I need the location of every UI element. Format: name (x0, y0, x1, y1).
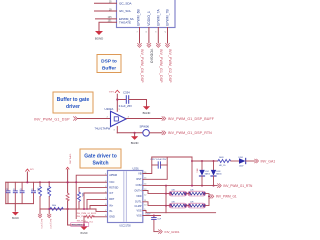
svg-text:VCC: VCC (109, 181, 114, 184)
svg-text:C219: C219 (145, 213, 151, 215)
junction resnet row2 (165, 205, 167, 207)
svg-text:INV_GND1: INV_GND1 (72, 225, 83, 227)
junction ICT (83, 208, 85, 210)
label box DSP to Buffer (97, 55, 121, 73)
svg-text:BGND: BGND (143, 111, 151, 115)
svg-text:Gate driver to: Gate driver to (84, 153, 117, 159)
junction APWM bus (75, 181, 77, 183)
offpage connector EPWM_7B (166, 43, 170, 47)
offpage connector HI (255, 159, 259, 163)
wire HI net row (192, 160, 218, 162)
svg-text:OUTL: OUTL (135, 201, 142, 204)
capacitor C3 (20, 182, 24, 203)
junction RDT (86, 208, 88, 210)
wire rtn (149, 132, 161, 134)
gate driver U201 body (108, 171, 143, 223)
svg-text:C2: C2 (31, 189, 33, 191)
wire GND drop (83, 217, 85, 227)
right pin numbers (144, 172, 146, 211)
svg-text:GND: GND (109, 216, 115, 219)
svg-text:driver: driver (66, 104, 80, 110)
wire to diode (231, 160, 240, 162)
junction GND bottom (83, 224, 85, 226)
wire left resnet vertical (165, 186, 167, 213)
diode D203 column (211, 160, 222, 186)
ground BGND top-left (95, 31, 103, 35)
wire to offpage HI (246, 160, 255, 162)
svg-text:560R: 560R (219, 157, 224, 159)
svg-text:C2: C2 (20, 189, 22, 191)
svg-text:INV_PWM_G1_RTN: INV_PWM_G1_RTN (77, 216, 96, 218)
svg-text:THGATE: THGATE (119, 21, 131, 25)
svg-text:BGND: BGND (95, 36, 103, 40)
wire EPWM_6A (96, 18, 117, 20)
svg-text:VSS: VSS (136, 209, 141, 212)
capacitor C1 (6, 182, 10, 203)
wire RDT staircase (87, 199, 108, 209)
resistor R8 row1b (188, 190, 206, 196)
resistor R7 row1a (169, 190, 187, 196)
resistor R5 on GND row (84, 215, 108, 218)
svg-text:INV_PWM_G1_RTN: INV_PWM_G1_RTN (223, 184, 253, 188)
resistor R4 vertical (78, 188, 83, 209)
svg-text:RDT: RDT (109, 198, 115, 201)
offpage connector GND1 (159, 230, 163, 234)
svg-text:RST: RST (137, 178, 142, 181)
offpage connector R1 (38, 214, 41, 217)
wire bank bottom (6, 203, 34, 205)
wire bank left edge (5, 182, 7, 203)
svg-text:INV_FLT2: INV_FLT2 (49, 219, 51, 230)
junction bank power (26, 181, 28, 183)
wire output (126, 118, 162, 120)
wire row2 link (187, 205, 189, 207)
svg-text:OUTH: OUTH (134, 189, 141, 192)
svg-text:100k: 100k (37, 188, 39, 192)
resistor R3 horizontal (50, 205, 63, 210)
junction rail bottom (191, 185, 193, 187)
capacitor C4 (31, 182, 35, 203)
offpage connector R2 (48, 214, 51, 217)
junction resnet top (165, 185, 167, 187)
svg-text:14: 14 (144, 183, 146, 185)
svg-text:V3P3_INV: V3P3_INV (69, 154, 71, 165)
svg-text:VDDIO_1: VDDIO_1 (147, 11, 151, 26)
wire gnd row (117, 132, 142, 134)
svg-text:RST/SD: RST/SD (109, 186, 118, 189)
wire row2 stub (166, 205, 170, 207)
junction VCC node (116, 98, 118, 100)
ground BGND driver (80, 227, 87, 231)
svg-text:10: 10 (144, 204, 146, 206)
svg-text:I2C_SCL: I2C_SCL (119, 9, 132, 13)
svg-text:100k: 100k (81, 193, 83, 197)
svg-text:3: 3 (105, 186, 106, 188)
svg-text:EPWM_7B: EPWM_7B (166, 9, 170, 26)
svg-text:BAS16: BAS16 (205, 173, 210, 176)
power arrow V3P3 (115, 90, 119, 92)
wire EPWM_6B down (139, 28, 141, 44)
svg-text:4: 4 (105, 191, 106, 193)
svg-text:APWM: APWM (109, 174, 117, 177)
wire APWM staircase (76, 175, 107, 218)
buffer U202A triangle (111, 111, 127, 126)
wire VSS2 row (143, 215, 161, 217)
ground BGND buffer (131, 136, 138, 140)
junction mid row (67, 208, 69, 210)
junction D203 bottom (213, 185, 215, 187)
svg-text:INV_PWM_G1_BUFF: INV_PWM_G1_BUFF (77, 213, 97, 215)
right pin names (134, 172, 142, 217)
svg-text:VDD: VDD (136, 195, 141, 198)
offpage connector G1 (210, 195, 214, 199)
svg-text:7: 7 (105, 210, 106, 212)
resistor R10 row2b (188, 202, 206, 208)
svg-text:INV_PWM_G2_DSP: INV_PWM_G2_DSP (168, 49, 172, 83)
ground BGND bank (12, 212, 19, 216)
wire RST right (143, 157, 167, 179)
svg-text:8: 8 (105, 215, 106, 217)
svg-text:INV_PWM_G1: INV_PWM_G1 (216, 195, 237, 199)
svg-text:SPW06: SPW06 (140, 125, 150, 129)
svg-text:C2: C2 (6, 189, 8, 191)
testpoint SPW06 (143, 130, 150, 137)
svg-text:6: 6 (105, 204, 106, 206)
wire bank to ground (14, 204, 16, 212)
hysteresis symbol (114, 117, 118, 121)
svg-text:U202A: U202A (105, 107, 114, 111)
resistor R2 column (46, 181, 51, 214)
svg-text:INV_PWM_G1_DSP: INV_PWM_G1_DSP (159, 49, 163, 83)
wire row1 stub (166, 193, 170, 195)
wire INM staircase (96, 209, 108, 211)
power arrow bank (26, 169, 35, 182)
svg-text:BAS16: BAS16 (216, 173, 221, 176)
wire row1 link (187, 193, 189, 195)
svg-text:EPWM_6B: EPWM_6B (137, 9, 141, 26)
svg-text:74LV1TAPW: 74LV1TAPW (95, 127, 111, 131)
wire INP staircase (90, 206, 108, 210)
offpage connector EPWM_7A (156, 43, 160, 47)
dsp U1 body (117, 0, 176, 28)
wire to C334 (117, 99, 126, 101)
offpage connector input (74, 117, 78, 121)
label box Gate driver to Switch (80, 149, 121, 168)
wire V3P3 bus (6, 181, 108, 183)
svg-text:BGND: BGND (81, 232, 88, 235)
svg-text:D201: D201 (239, 157, 244, 159)
wire OUTL to resistors (143, 202, 169, 206)
svg-text:INV1: INV1 (195, 169, 197, 173)
power V3P3_INV column (66, 154, 71, 225)
wire VCC up (116, 94, 118, 111)
offpage connector output (162, 117, 166, 121)
svg-text:0.1uF_25V: 0.1uF_25V (119, 104, 132, 108)
wire VB (143, 157, 152, 174)
svg-text:UCC21750: UCC21750 (119, 225, 131, 227)
junction D202 bottom (201, 185, 203, 187)
junction V3P3 bus (67, 181, 69, 183)
wire mid row (40, 208, 96, 210)
svg-text:360k: 360k (52, 205, 56, 207)
junction resnet top (165, 193, 167, 195)
junction gnd row (134, 132, 136, 134)
svg-text:BGND: BGND (12, 217, 19, 220)
resistor R6 560R (218, 157, 231, 167)
net label rows left of IC (77, 213, 97, 222)
offpage connector rtn (162, 131, 166, 135)
svg-text:C217 0.1uF 25V: C217 0.1uF 25V (150, 159, 166, 161)
offpage connector VDDIO (147, 43, 151, 47)
svg-text:INV_PWM_G1_DSP: INV_PWM_G1_DSP (34, 118, 70, 122)
svg-text:1: 1 (105, 174, 106, 176)
svg-text:2: 2 (105, 181, 106, 183)
resistor R9 row2a (169, 202, 187, 208)
svg-text:5: 5 (105, 198, 106, 200)
svg-text:VSS: VSS (136, 214, 141, 217)
wire OUTH to resistors (143, 191, 169, 194)
svg-text:INV_FLT1: INV_FLT1 (40, 219, 42, 230)
svg-text:BGND: BGND (131, 141, 139, 145)
svg-text:100k: 100k (46, 188, 48, 192)
svg-text:IN+: IN+ (109, 204, 114, 207)
capacitor C334 (125, 96, 127, 104)
svg-text:12: 12 (144, 194, 146, 196)
svg-text:COM: COM (136, 184, 142, 187)
svg-text:ICT: ICT (109, 192, 114, 195)
svg-text:I2C_SDA: I2C_SDA (119, 1, 132, 5)
svg-text:INV_PWM_G1_DSP_RTN: INV_PWM_G1_DSP_RTN (168, 131, 212, 135)
svg-text:IN-: IN- (109, 210, 113, 213)
svg-text:HR_1%: HR_1% (219, 165, 226, 167)
wire VDDIO down (148, 28, 150, 44)
capacitor C2 (13, 182, 17, 203)
wire row2 out (205, 196, 209, 205)
capacitor C217 (150, 159, 167, 168)
isolation divider (123, 172, 125, 222)
wire GND bottom row (68, 224, 84, 226)
svg-text:VB: VB (138, 172, 142, 175)
wire cap to gnd (129, 100, 146, 107)
svg-text:INV_GND1: INV_GND1 (165, 230, 180, 234)
wire RST row (79, 187, 108, 189)
junction rail net (191, 160, 193, 162)
wire COM to RTN row (143, 185, 217, 187)
wire I2C_SCL (95, 10, 117, 12)
wire VDD rail (152, 156, 192, 158)
wire rail drop (191, 157, 193, 186)
diode D202 column (199, 160, 210, 186)
wire ICT staircase (84, 193, 108, 209)
svg-text:C334: C334 (123, 91, 130, 95)
wire to offpage GND1 (154, 231, 158, 233)
svg-text:C2: C2 (13, 189, 15, 191)
wire THGATE to ground (99, 22, 117, 31)
svg-text:V3P3: V3P3 (109, 92, 115, 94)
left pin names (109, 174, 118, 219)
left pin numbers (105, 174, 106, 218)
svg-text:EPWM_7A: EPWM_7A (156, 8, 160, 25)
junction R2 mid (48, 208, 50, 210)
junction VSS2 (153, 215, 155, 217)
svg-text:CLMP: CLMP (135, 205, 142, 208)
svg-text:INV_PWM_G6_DSP: INV_PWM_G6_DSP (140, 49, 144, 83)
svg-text:INV_PWM_G1_DSP_BUFF: INV_PWM_G1_DSP_BUFF (168, 117, 215, 121)
svg-text:Buffer to gate: Buffer to gate (57, 97, 90, 103)
ground BGND cap (143, 106, 150, 110)
svg-text:VDDGIO: VDDGIO (150, 49, 154, 64)
svg-text:Switch: Switch (92, 160, 108, 166)
svg-text:Buffer: Buffer (102, 65, 116, 71)
wire row1 out (205, 194, 209, 197)
diode D201 (239, 157, 246, 168)
net box INV_GND1 (71, 223, 89, 227)
wire to gnd symbol (134, 133, 136, 137)
wire gnd down (116, 127, 118, 133)
svg-text:DSP to: DSP to (101, 59, 117, 65)
svg-text:INV_GA1_HI: INV_GA1_HI (261, 159, 276, 163)
wire EPWM_7A down (157, 28, 159, 44)
wire I2C_SDA (95, 2, 117, 4)
junction row out (208, 195, 210, 197)
offpage connector RTN (218, 184, 222, 188)
wire EPWM_7B down (167, 28, 169, 44)
offpage connector EPWM_6B (138, 43, 142, 47)
capacitor C219 (145, 213, 161, 231)
resistor R1 column (37, 181, 42, 214)
svg-text:INV_FLT1: INV_FLT1 (77, 220, 87, 222)
svg-text:U201: U201 (133, 166, 140, 170)
svg-text:100V: 100V (239, 166, 244, 168)
wire input (78, 118, 111, 120)
wire VSS row (143, 211, 216, 213)
label box Buffer to gate driver (53, 92, 93, 113)
